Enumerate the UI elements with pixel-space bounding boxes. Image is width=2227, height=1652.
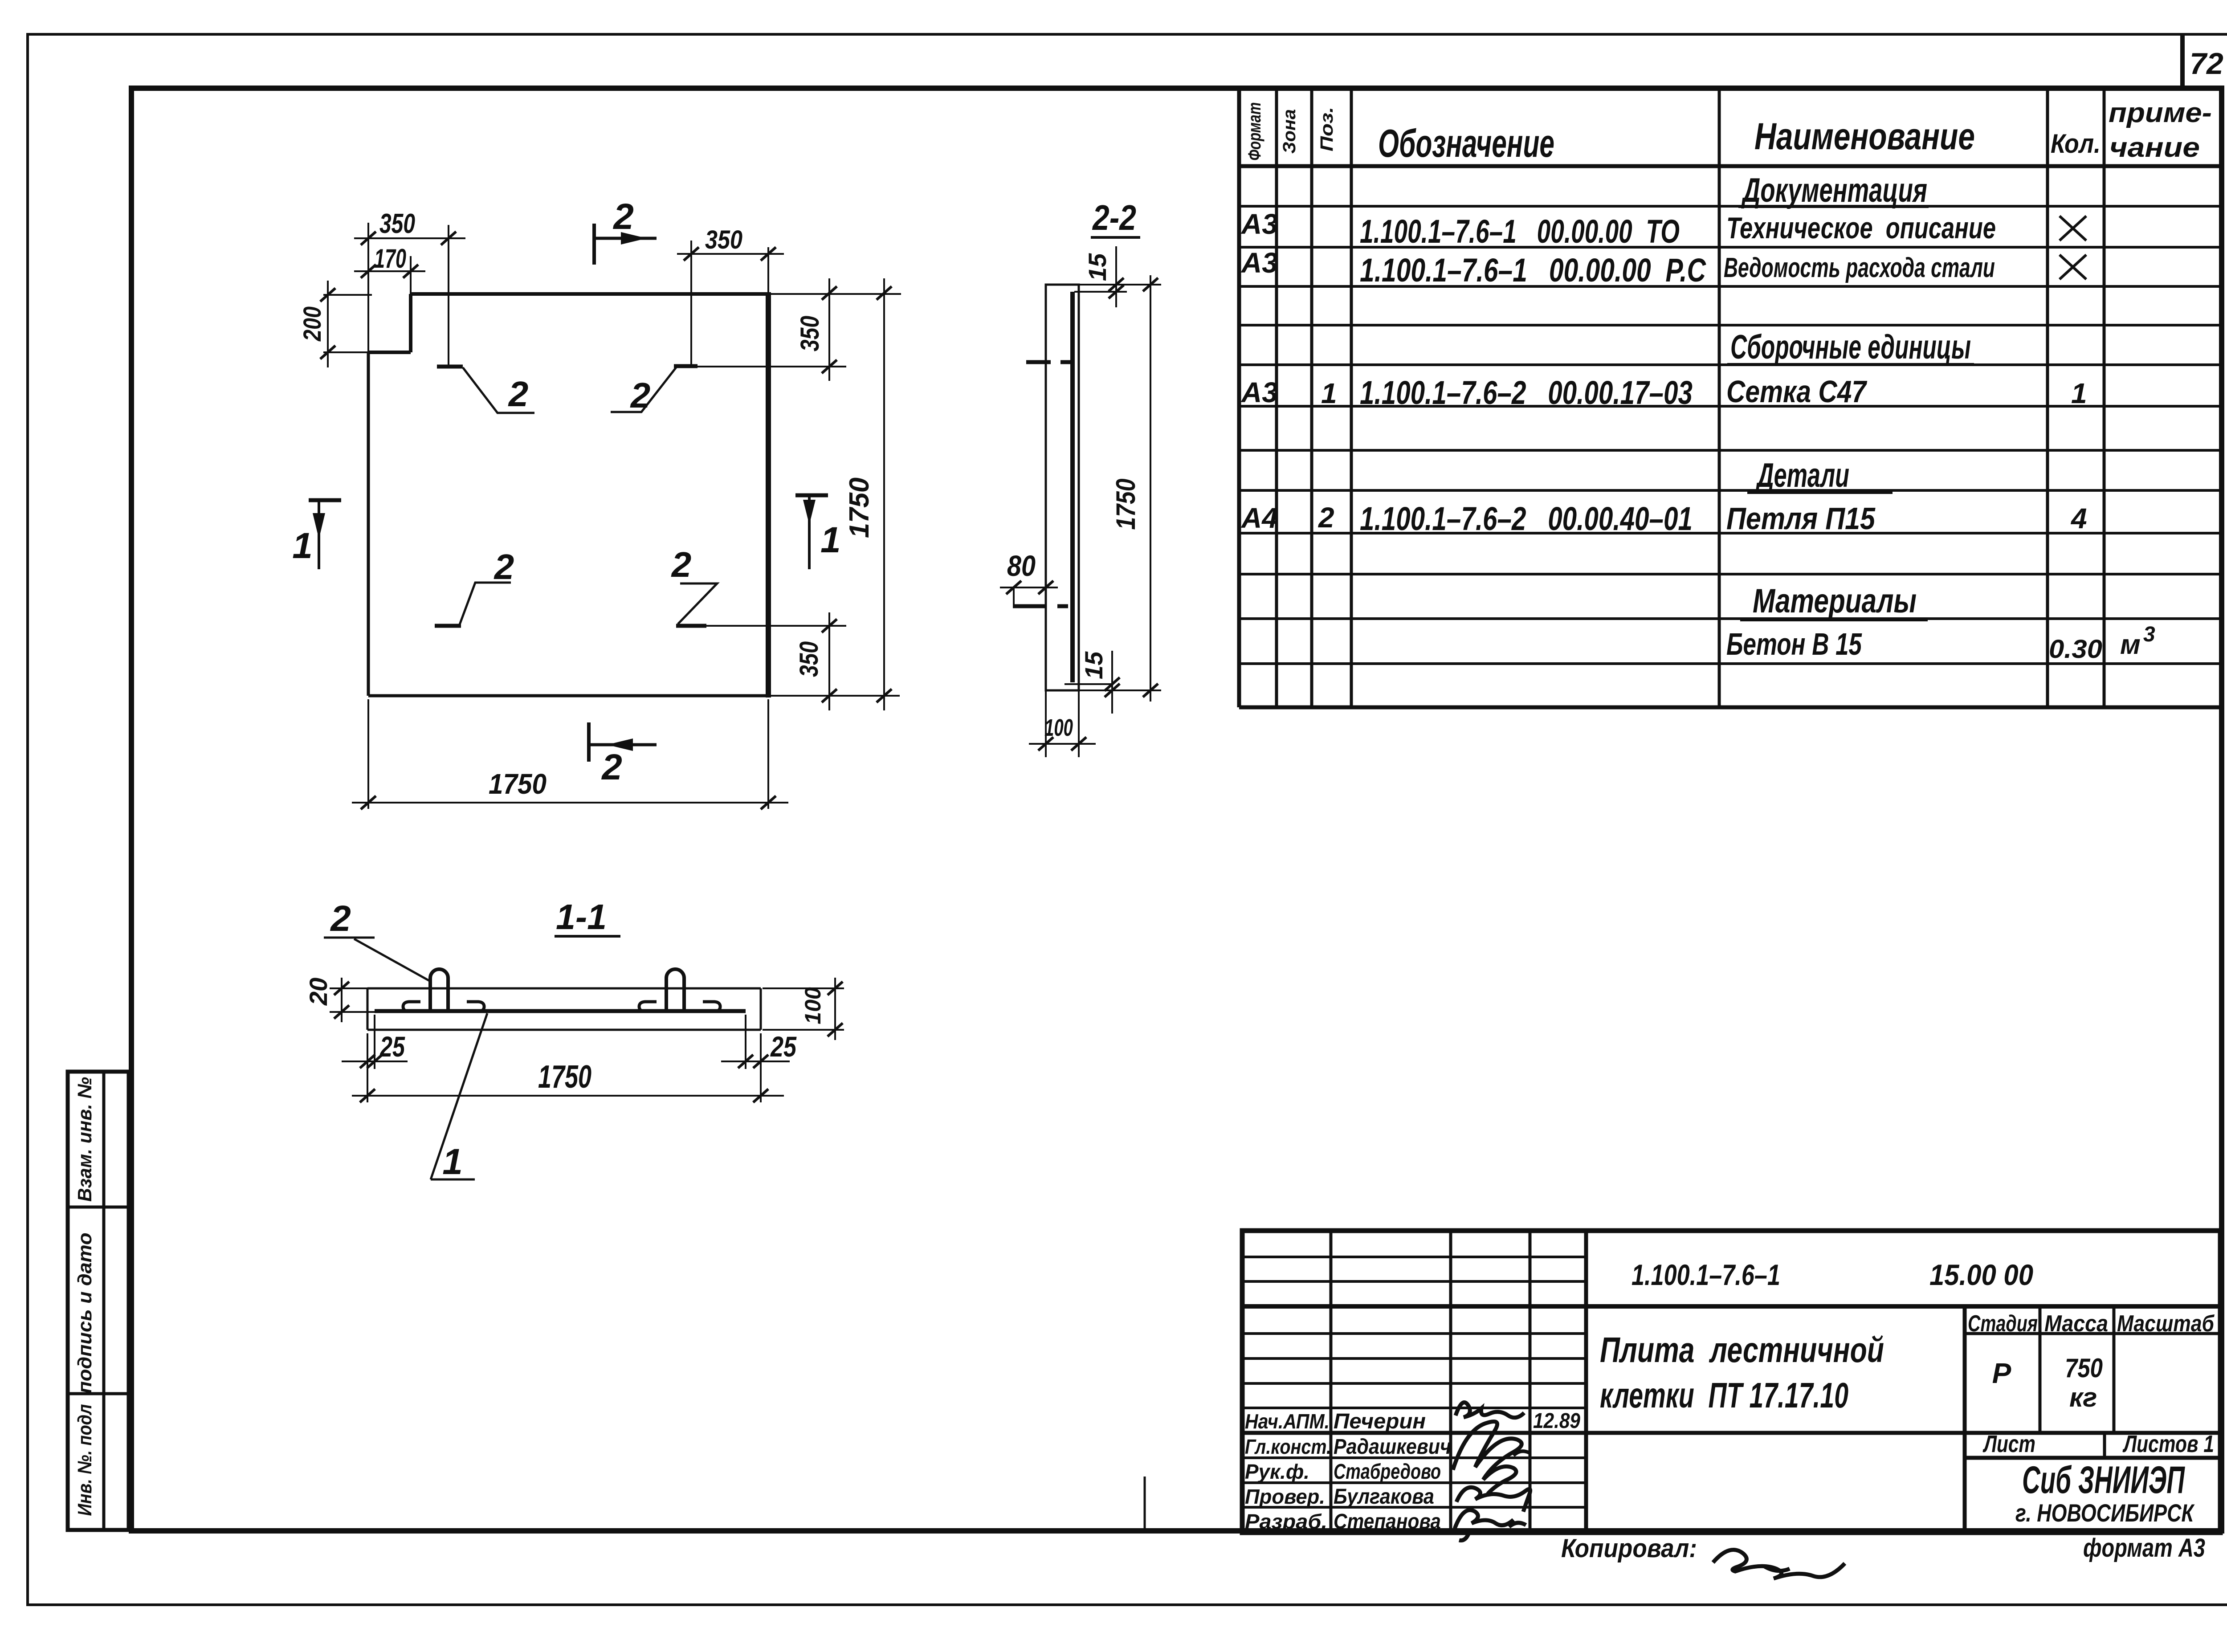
section mark 1 left bbox=[292, 500, 341, 569]
slab left end bbox=[367, 988, 369, 1030]
svg-text:Гл.конст.: Гл.конст. bbox=[1245, 1435, 1331, 1458]
svg-text:Стабредово: Стабредово bbox=[1334, 1460, 1441, 1484]
svg-text:Инв. №. подл: Инв. №. подл bbox=[74, 1404, 96, 1516]
svg-text:Листов 1: Листов 1 bbox=[2122, 1431, 2214, 1457]
svg-text:750: 750 bbox=[2065, 1353, 2103, 1383]
notch horizontal edge bbox=[368, 351, 411, 354]
svg-text:Нач.АПМ.: Нач.АПМ. bbox=[1245, 1410, 1330, 1433]
svg-text:Формат: Формат bbox=[1245, 102, 1264, 161]
svg-text:1.100.1–7.6–1 00.00.00 Р.С: 1.100.1–7.6–1 00.00.00 Р.С bbox=[1360, 252, 1706, 289]
h row line 4 / стадия header bottom bbox=[1242, 1332, 1586, 1335]
slab top line bbox=[367, 987, 761, 990]
dim 100 bottom bbox=[1029, 690, 1096, 757]
mesh bottom extension bbox=[1065, 683, 1113, 685]
svg-text:А3: А3 bbox=[1240, 247, 1278, 279]
dim 350 top-right bbox=[677, 225, 784, 261]
svg-text:12.89: 12.89 bbox=[1533, 1409, 1580, 1433]
svg-text:Взам. инв. №: Взам. инв. № bbox=[74, 1077, 96, 1202]
slab right end bbox=[760, 988, 762, 1030]
svg-text:м: м bbox=[2120, 629, 2141, 660]
row line 6 bbox=[1239, 405, 2222, 408]
v line name col bbox=[1449, 1231, 1452, 1533]
mesh top line (to right dim) bbox=[697, 366, 846, 367]
svg-text:1: 1 bbox=[2071, 377, 2087, 409]
section heading Документация bbox=[1738, 171, 1929, 209]
dim 1750 right (vertical) bbox=[844, 278, 892, 710]
svg-text:Радашкевич: Радашкевич bbox=[1334, 1435, 1451, 1459]
dim 20 left bbox=[304, 978, 376, 1022]
svg-text:Стадия: Стадия bbox=[1968, 1311, 2038, 1337]
v line лист/листов bbox=[2103, 1433, 2106, 1458]
bar mark upper bbox=[1026, 360, 1071, 364]
svg-text:Рук.ф.: Рук.ф. bbox=[1245, 1460, 1309, 1483]
mesh line (thick) bbox=[375, 1009, 746, 1013]
svg-text:Материалы: Материалы bbox=[1753, 582, 1917, 620]
row line 2 bbox=[1239, 246, 2222, 249]
svg-text:Бетон В 15: Бетон В 15 bbox=[1726, 627, 1862, 661]
column зона/поз bbox=[1310, 88, 1313, 707]
fold mark bottom center bbox=[1144, 1477, 1146, 1531]
row line 7 bbox=[1239, 449, 2222, 452]
v line label col bbox=[1330, 1231, 1333, 1533]
svg-text:1.100.1–7.6–1: 1.100.1–7.6–1 bbox=[1632, 1258, 1780, 1291]
svg-text:2: 2 bbox=[601, 747, 622, 787]
row line 11 bbox=[1239, 617, 2222, 620]
svg-text:кг: кг bbox=[2069, 1383, 2097, 1412]
svg-text:Лист: Лист bbox=[1982, 1431, 2035, 1457]
mesh bottom line (to right dim) bbox=[706, 625, 846, 627]
section heading Материалы bbox=[1740, 582, 1928, 620]
extension line right edge up bbox=[767, 247, 769, 292]
svg-text:Сетка С47: Сетка С47 bbox=[1726, 374, 1868, 409]
section title 2-2 bbox=[1091, 198, 1140, 237]
h row line 9 bbox=[1242, 1481, 1586, 1484]
slab bottom line bbox=[367, 1029, 761, 1031]
svg-text:2: 2 bbox=[630, 375, 651, 415]
row line 4 bbox=[1239, 324, 2222, 326]
bar mark lower bbox=[1013, 604, 1068, 608]
row A3 ведомость расхода стали bbox=[1240, 247, 2086, 289]
dim 350 right upper (vertical) bbox=[795, 278, 837, 381]
svg-text:15: 15 bbox=[1083, 253, 1111, 281]
svg-text:1: 1 bbox=[1321, 377, 1337, 409]
svg-text:формат А3: формат А3 bbox=[2083, 1534, 2205, 1562]
strip divider vertical bbox=[102, 1072, 106, 1530]
svg-text:2: 2 bbox=[612, 196, 634, 237]
svg-text:Петля П15: Петля П15 bbox=[1726, 501, 1876, 536]
dim 15 top bbox=[1083, 246, 1124, 307]
h row line 5 bbox=[1242, 1357, 1586, 1360]
svg-text:Масштаб: Масштаб bbox=[2117, 1311, 2215, 1337]
section mark 2 top bbox=[594, 196, 657, 265]
column кол/примечание bbox=[2103, 88, 2106, 707]
svg-text:Обозначение: Обозначение bbox=[1378, 121, 1554, 165]
strip divider подпись/инв bbox=[68, 1392, 129, 1395]
svg-text:Булгакова: Булгакова bbox=[1334, 1485, 1434, 1509]
column обозначение/наименование bbox=[1718, 88, 1721, 707]
svg-text:Масса: Масса bbox=[2044, 1311, 2108, 1337]
plate right edge (thick) bbox=[766, 292, 771, 698]
section heading Детали bbox=[1747, 457, 1893, 494]
dim 15 bottom bbox=[1080, 651, 1120, 714]
lifting loop right bbox=[639, 969, 720, 1012]
svg-text:350: 350 bbox=[795, 641, 824, 677]
row A3 техническое описание bbox=[1240, 208, 2086, 250]
dim 25 right bbox=[721, 1015, 797, 1069]
signature squiggle row 5 (Степанова) bbox=[1455, 1510, 1526, 1540]
row Петля П15 bbox=[1240, 500, 2087, 537]
svg-text:клетки ПТ 17.17.10: клетки ПТ 17.17.10 bbox=[1600, 1375, 1848, 1415]
bottom edge extension bbox=[1079, 689, 1161, 691]
mesh corner mark top-left bbox=[437, 367, 534, 414]
mesh corner mark bottom-right bbox=[671, 545, 717, 626]
svg-text:2: 2 bbox=[330, 898, 351, 939]
dim 100 right bbox=[763, 978, 844, 1040]
svg-text:15: 15 bbox=[1080, 651, 1108, 679]
title block outline bbox=[1242, 1231, 2220, 1533]
v line date col / big cell left bbox=[1584, 1231, 1588, 1533]
svg-text:2: 2 bbox=[494, 547, 514, 587]
svg-text:чание: чание bbox=[2109, 132, 2200, 163]
svg-text:1-1: 1-1 bbox=[556, 897, 607, 937]
dim 170 bbox=[354, 244, 425, 278]
svg-text:4: 4 bbox=[2070, 502, 2087, 534]
leader 2 to loop bbox=[324, 898, 429, 981]
svg-text:А3: А3 bbox=[1240, 376, 1278, 408]
svg-text:1.100.1–7.6–2 00.00.17–03: 1.100.1–7.6–2 00.00.17–03 bbox=[1360, 374, 1693, 411]
plate bottom edge extension bbox=[768, 695, 900, 697]
v line sign col bbox=[1529, 1231, 1532, 1533]
svg-text:20: 20 bbox=[304, 978, 332, 1006]
svg-text:подпись и дато: подпись и дато bbox=[74, 1233, 96, 1394]
svg-text:Разраб.: Разраб. bbox=[1245, 1510, 1327, 1533]
table bottom line bbox=[1239, 706, 2222, 710]
row Бетон В15 bbox=[1726, 623, 2155, 664]
v line стадия/масса bbox=[2039, 1306, 2042, 1433]
mesh line (thick vertical) bbox=[1070, 292, 1075, 682]
page number cell divider bbox=[2180, 34, 2185, 88]
signature tilde row 3 bbox=[1513, 1451, 1530, 1456]
svg-text:Наименование: Наименование bbox=[1754, 115, 1975, 157]
svg-text:2: 2 bbox=[1318, 502, 1334, 534]
svg-text:25: 25 bbox=[379, 1031, 405, 1063]
svg-text:100: 100 bbox=[1044, 714, 1073, 741]
row Сетка С47 bbox=[1240, 374, 2087, 411]
row line 10 bbox=[1239, 573, 2222, 575]
plate left edge bbox=[367, 352, 370, 696]
dim 80 bbox=[1000, 549, 1058, 608]
h row line 10 bbox=[1242, 1506, 1586, 1509]
strip divider взам/подпись bbox=[68, 1206, 129, 1209]
svg-text:Кол.: Кол. bbox=[2051, 129, 2101, 159]
svg-text:2-2: 2-2 bbox=[1092, 198, 1136, 237]
leader 1 to mesh bbox=[431, 1013, 487, 1182]
row line 9 bbox=[1239, 532, 2222, 534]
section mark 2 bottom bbox=[589, 722, 657, 787]
dim 1750 bottom bbox=[352, 699, 788, 809]
svg-text:200: 200 bbox=[298, 306, 326, 342]
extension line notch (for 170 dim) bbox=[410, 256, 412, 294]
svg-text:2: 2 bbox=[508, 374, 529, 414]
header bottom line bbox=[1239, 164, 2222, 168]
svg-text:350: 350 bbox=[705, 225, 742, 254]
v line масса/масштаб bbox=[2113, 1306, 2116, 1433]
notch vertical edge bbox=[409, 294, 412, 352]
column поз/обозначение bbox=[1350, 88, 1353, 707]
h line лист row bottom bbox=[1242, 1456, 1586, 1459]
signature squiggle row 1 (Печерин) bbox=[1456, 1403, 1524, 1418]
row line 5 bbox=[1239, 363, 2222, 366]
svg-text:Детали: Детали bbox=[1755, 457, 1849, 494]
v line стадия col bbox=[1963, 1306, 1967, 1533]
svg-text:1: 1 bbox=[292, 526, 313, 566]
svg-text:1: 1 bbox=[820, 520, 841, 560]
svg-text:1.100.1–7.6–2 00.00.40–01: 1.100.1–7.6–2 00.00.40–01 bbox=[1360, 500, 1693, 537]
plate top edge extension bbox=[768, 293, 901, 295]
svg-text:Р: Р bbox=[1992, 1357, 2011, 1389]
h row line 6 bbox=[1242, 1382, 1586, 1385]
svg-text:г. НОВОСИБИРСК: г. НОВОСИБИРСК bbox=[2015, 1499, 2195, 1527]
svg-text:80: 80 bbox=[1007, 549, 1036, 582]
svg-text:Плита лестничной: Плита лестничной bbox=[1600, 1330, 1884, 1370]
section title 1-1 bbox=[555, 897, 620, 937]
extension line x1552 (350 right dim to mesh mark) bbox=[690, 241, 692, 367]
column наименование/кол bbox=[2046, 88, 2049, 707]
plate top edge bbox=[411, 292, 768, 296]
svg-text:Зона: Зона bbox=[1280, 109, 1299, 154]
svg-text:100: 100 bbox=[800, 987, 825, 1024]
svg-text:1750: 1750 bbox=[1111, 479, 1141, 530]
extension line x1007 (350 left dim to mesh mark) bbox=[448, 225, 449, 367]
svg-text:170: 170 bbox=[374, 244, 406, 273]
svg-text:Поз.: Поз. bbox=[1317, 107, 1337, 151]
h row line 7 bbox=[1242, 1407, 1586, 1409]
dim 1750 bottom bbox=[352, 1059, 784, 1102]
top edge extension bbox=[1079, 284, 1161, 286]
svg-text:Ведомость расхода стали: Ведомость расхода стали bbox=[1724, 253, 1995, 283]
signature rows labels bbox=[1245, 1409, 1580, 1534]
svg-text:Сборочные единицы: Сборочные единицы bbox=[1730, 328, 1971, 366]
svg-text:Сиб ЗНИИЭП: Сиб ЗНИИЭП bbox=[2022, 1459, 2185, 1501]
row line 12 bbox=[1239, 662, 2222, 665]
svg-text:приме-: приме- bbox=[2109, 98, 2212, 128]
svg-text:72: 72 bbox=[2190, 47, 2223, 81]
signature squiggle row 4 (Булгакова) bbox=[1456, 1487, 1530, 1512]
svg-text:0.30: 0.30 bbox=[2049, 635, 2102, 664]
mesh corner mark top-right bbox=[611, 366, 697, 415]
svg-text:А4: А4 bbox=[1240, 502, 1278, 534]
slab outline section 2-2 bbox=[1046, 285, 1079, 690]
svg-text:1750: 1750 bbox=[489, 768, 547, 800]
svg-text:1750: 1750 bbox=[844, 477, 875, 538]
mesh top extension bbox=[1074, 291, 1127, 293]
dim 1750 (vertical) bbox=[1111, 275, 1158, 702]
svg-text:Документация: Документация bbox=[1741, 171, 1927, 209]
section heading Сборочные единицы bbox=[1727, 328, 1974, 366]
extension line left (for 350/170 dims) bbox=[367, 223, 369, 352]
dim 200 left bbox=[298, 281, 372, 367]
копировал signature bbox=[1713, 1550, 1845, 1579]
svg-text:350: 350 bbox=[379, 208, 415, 239]
svg-text:350: 350 bbox=[795, 316, 824, 351]
svg-text:А3: А3 bbox=[1240, 208, 1278, 240]
row line 3 bbox=[1239, 285, 2222, 288]
h line under doc number cell bbox=[1242, 1304, 2220, 1309]
svg-text:Степанова: Степанова bbox=[1334, 1510, 1441, 1534]
svg-text:3: 3 bbox=[2143, 623, 2155, 646]
svg-text:15.00 00: 15.00 00 bbox=[1929, 1258, 2033, 1291]
h row line 2 bbox=[1242, 1280, 1586, 1283]
svg-text:2: 2 bbox=[671, 545, 692, 584]
svg-text:25: 25 bbox=[770, 1031, 797, 1063]
dim 25 left bbox=[342, 1015, 408, 1069]
h line name cell bottom / лист row top bbox=[1242, 1431, 2220, 1435]
svg-text:1: 1 bbox=[442, 1142, 463, 1182]
row line 1 bbox=[1239, 205, 2222, 208]
section mark 1 right bbox=[795, 495, 841, 569]
svg-text:1750: 1750 bbox=[538, 1059, 591, 1095]
plate bottom edge bbox=[368, 694, 768, 698]
svg-text:1.100.1–7.6–1 00.00.00 ТО: 1.100.1–7.6–1 00.00.00 ТО bbox=[1360, 213, 1680, 250]
svg-text:Копировал:: Копировал: bbox=[1561, 1534, 1697, 1563]
lifting loop left bbox=[403, 969, 484, 1012]
table left border bbox=[1237, 88, 1241, 707]
column формат/зона bbox=[1275, 88, 1278, 707]
left strip outline bbox=[68, 1072, 129, 1530]
svg-text:Техническое описание: Техническое описание bbox=[1726, 211, 1996, 245]
dim 350 top-left bbox=[354, 208, 465, 245]
svg-text:Провер.: Провер. bbox=[1245, 1485, 1325, 1508]
h row line 1 bbox=[1242, 1256, 1586, 1258]
mesh corner mark bottom-left bbox=[435, 547, 514, 626]
svg-text:Печерин: Печерин bbox=[1334, 1410, 1426, 1433]
row line 8 bbox=[1239, 489, 2222, 492]
dim 350 right lower (vertical) bbox=[795, 612, 837, 710]
signature squiggle row 2-3 (Радашкевич flourish) bbox=[1453, 1422, 1521, 1494]
